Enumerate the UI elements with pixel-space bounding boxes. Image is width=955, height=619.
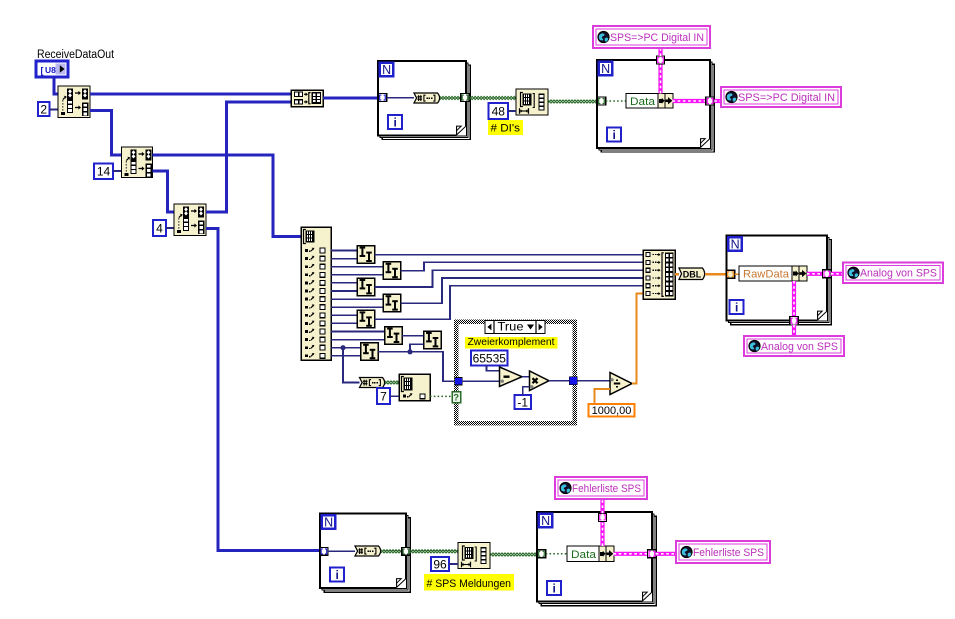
wire loop4 to reshape2 (boolean array) (410, 550, 458, 553)
join numbers node JN6 (385, 327, 403, 345)
wire right tunnel to Analog von SPS (831, 272, 843, 276)
case input tunnel (455, 378, 462, 385)
number-to-boolean-array node 1 (414, 93, 440, 103)
svg-text:N: N (541, 514, 550, 528)
For-loop1 right tunnel (461, 94, 470, 102)
wire right tunnel to SPS=>PC Digital IN (714, 99, 721, 103)
junction dot on JN7 output (407, 349, 412, 354)
number-to-boolean-array node 3 (360, 378, 385, 388)
wire constant4 to split3 (166, 227, 174, 229)
wire top tunnel to Fehlerliste SPS (600, 499, 604, 513)
wire index row 12 to join-numbers 6 (331, 339, 385, 341)
join numbers node JN7 (361, 343, 379, 361)
number-to-boolean-array node 4 (355, 546, 381, 556)
svg-text:# SPS Meldungen: # SPS Meldungen (427, 578, 512, 590)
label # SPS Meldungen (424, 574, 514, 591)
wire split2 out2 to split3 (153, 171, 175, 212)
case selector label True (485, 321, 545, 334)
svg-text:i: i (336, 568, 339, 582)
wire tunnel to num2boolarray 4 (328, 550, 355, 552)
svg-text:i: i (613, 128, 616, 142)
svg-text:SPS=>PC Digital IN: SPS=>PC Digital IN (738, 92, 835, 104)
shared variable SPS=>PC Digital IN (top) (593, 26, 710, 48)
wire split3 out2 to For-loop4 (206, 229, 320, 551)
wire split2 out1 to index array (153, 155, 302, 237)
svg-text:Fehlerliste SPS: Fehlerliste SPS (693, 547, 764, 559)
For-loop 1 frame (378, 61, 470, 140)
svg-text:Analog von SPS: Analog von SPS (860, 268, 937, 280)
wire JN5 to build array row5 (375, 286, 644, 320)
wire index row 3 to join-numbers 2 (331, 266, 383, 268)
wire index row 5 to join-numbers 3 (331, 282, 357, 284)
wire bottom tunnel to Analog von SPS (792, 325, 796, 336)
wire JN3 to build array row3 (375, 270, 644, 287)
wire right tunnel to Fehlerliste SPS (656, 552, 676, 556)
svg-text:# DI's: # DI's (491, 123, 521, 135)
constant 96 (431, 557, 449, 571)
wire tunnel to num2boolarray (387, 97, 414, 99)
wire constant14 to split2 (113, 170, 122, 172)
wire case input tunnel to subtract (462, 380, 500, 382)
constant 2 (38, 102, 50, 116)
wire split3 out1 to build array (206, 102, 291, 212)
wire Data2 up to top tunnel (psp) (600, 521, 604, 546)
svg-text:7: 7 (380, 389, 387, 403)
wire tunnel to Data (boolean) (546, 553, 567, 555)
For-loop2 right tunnel (706, 97, 715, 105)
wire build array to DBL (675, 273, 679, 276)
wire reshape2 to For-loop5 (boolean array) (490, 553, 537, 556)
svg-text:N: N (324, 516, 333, 530)
svg-text:14: 14 (97, 165, 111, 179)
wire DBL to For-loop3 (705, 273, 727, 276)
wire 65535 to subtract (487, 366, 500, 371)
svg-text:[: [ (41, 66, 44, 76)
wire small index array to case selector (boolean) (430, 395, 452, 397)
wire index row 9 to join-numbers 5 (331, 314, 357, 316)
svg-text:48: 48 (492, 104, 506, 118)
join numbers node JN3 (357, 278, 375, 296)
multiply node (530, 371, 550, 391)
wire index row 1 to join-numbers 1 (331, 250, 357, 252)
junction dot on index row 13 (340, 345, 345, 350)
wire build array to For-loop1 (323, 97, 378, 100)
case selector tunnel ? (452, 392, 461, 404)
wire junction to JN8 lower input (410, 344, 424, 351)
wire JN1 to build array row1 (375, 254, 644, 256)
wire index row 6 to join-numbers 3 (331, 290, 357, 292)
shared variable Analog von SPS (bottom) (744, 336, 844, 356)
label ReceiveDataOut (37, 49, 115, 61)
wire 96 to reshape2 (449, 563, 458, 565)
shared variable Analog von SPS (right) (843, 263, 943, 284)
For-loop 3 frame (727, 236, 832, 325)
For-loop3 left tunnel (726, 270, 735, 278)
wire JN2 to build array row2 (401, 262, 644, 270)
For-loop 4 frame (320, 514, 410, 593)
wire tunnel to Data node (boolean) (606, 100, 626, 102)
shared variable Fehlerliste SPS (top) (555, 477, 647, 499)
svg-text:Data: Data (571, 549, 597, 561)
wire n2b to right tunnel (boolean array) (440, 96, 461, 99)
wire top tunnel to shared variable (658, 48, 662, 57)
svg-text:i: i (394, 115, 397, 129)
wire index row 14 to join-numbers 7 (331, 355, 361, 357)
shared variable write node RawData (739, 266, 807, 281)
wire RawData down to bottom tunnel (psp) (792, 281, 796, 316)
shared variable write node Data 2 (567, 546, 614, 562)
svg-text:N: N (382, 63, 391, 77)
constant 4 (153, 220, 166, 236)
wire U8 terminal to split1 (54, 77, 58, 94)
to-double-precision DBL node (679, 268, 705, 280)
wire constant2 to split1 (50, 109, 59, 111)
join numbers node JN8 (424, 331, 442, 349)
wire index row 10 to join-numbers 5 (331, 322, 357, 324)
svg-text:N: N (731, 238, 740, 252)
wire Data to right tunnel (psp) (673, 99, 707, 103)
wire row13 junction down to num2boolarray 3 (343, 348, 360, 383)
constant 14 (94, 164, 113, 180)
svg-text:Analog von SPS: Analog von SPS (761, 341, 838, 353)
join numbers node JN2 (383, 262, 401, 280)
wire Data node up to top tunnel (psp) (658, 64, 662, 94)
svg-text:65535: 65535 (473, 351, 507, 365)
wire reshape1 to For-loop2 (boolean array) (548, 100, 597, 103)
For-loop4 left tunnel (320, 548, 328, 556)
wire 48 to reshape1 (508, 110, 516, 112)
wire index row 8 to join-numbers 4 (331, 306, 383, 308)
reshape array node 2 (458, 543, 490, 569)
build array node (7 inputs) (643, 250, 675, 299)
wire RawData to right tunnel (psp) (807, 272, 823, 276)
constant 48 (489, 103, 509, 119)
join numbers node JN1 (357, 246, 375, 264)
constant 1000,00 (589, 404, 635, 417)
For-loop5 right tunnel (648, 550, 657, 558)
svg-text:DBL: DBL (683, 270, 702, 280)
For-loop 2 frame (597, 60, 714, 152)
index array node (14 outputs) (301, 227, 331, 360)
wire case output to divide (577, 380, 610, 382)
wire n2b3 to index array small (boolean array) (385, 381, 399, 384)
wire multiply to output tunnel (549, 380, 569, 382)
For-loop5 top tunnel (598, 513, 606, 521)
wire JN4 to build array row4 (401, 278, 644, 303)
join numbers node JN5 (357, 310, 375, 328)
svg-text:Fehlerliste SPS: Fehlerliste SPS (572, 483, 641, 495)
wire index row 11 to join-numbers 6 (331, 331, 385, 333)
split array node 2 (122, 147, 153, 178)
constant -1 (515, 395, 532, 409)
svg-text:Data: Data (630, 96, 656, 108)
svg-text:True: True (498, 322, 524, 334)
wire loop1 to reshape1 (boolean array) (469, 96, 516, 99)
wire split1 out1 to build array (90, 93, 291, 96)
join numbers node JN4 (383, 294, 401, 312)
wire Data2 to right tunnel (psp) (614, 552, 648, 556)
For-loop1 left tunnel (378, 94, 387, 102)
reshape array node 1 (516, 89, 548, 115)
wire -1 to multiply (523, 387, 530, 395)
For-loop2 left tunnel (597, 97, 606, 105)
svg-text:U8: U8 (45, 65, 56, 75)
split array node 3 (174, 204, 206, 236)
label # DI's (488, 120, 523, 135)
case output tunnel (569, 377, 577, 385)
wire tunnel to RawData (735, 273, 739, 275)
wire split1 out2 to split2 (90, 111, 122, 156)
shared variable write node Data (626, 94, 673, 109)
constant 7 (377, 388, 390, 404)
svg-text:?: ? (453, 393, 459, 404)
wire index row 13 to join-numbers 7 (331, 347, 361, 349)
wire n2b4 to right tunnel (boolean array) (381, 550, 402, 553)
index array node (small) (399, 374, 430, 401)
wire JN7 output to case structure (378, 352, 455, 382)
svg-text:96: 96 (433, 557, 447, 571)
svg-text:-1: -1 (517, 395, 528, 409)
wire 1000,00 to divide (594, 389, 610, 404)
divide node (610, 373, 632, 395)
array terminal ReceiveDataOut [U8] (36, 61, 68, 77)
shared variable SPS=>PC Digital IN (right) (721, 87, 841, 107)
svg-text:2: 2 (40, 102, 47, 116)
build array node (2 inputs) (291, 90, 323, 107)
wire 7 to small index array (390, 395, 399, 397)
case structure border (454, 320, 577, 426)
For-loop3 bottom tunnel (790, 316, 799, 325)
svg-text:ReceiveDataOut: ReceiveDataOut (37, 49, 115, 61)
svg-text:i: i (735, 300, 738, 314)
For-loop4 right tunnel (402, 548, 410, 556)
wire index row 7 to join-numbers 4 (331, 298, 383, 300)
For-loop 5 frame (537, 512, 656, 606)
wire index row 2 to join-numbers 1 (331, 258, 357, 260)
wire divide to build array (DBL) (632, 294, 643, 384)
wire index row 4 to join-numbers 2 (331, 274, 383, 276)
For-loop3 right tunnel (823, 270, 832, 278)
shared variable Fehlerliste SPS (right) (676, 541, 770, 563)
subtract node (500, 367, 523, 387)
label Zweierkomplement (465, 336, 558, 349)
split array node 1 (58, 86, 90, 118)
constant 65535 (471, 351, 508, 366)
svg-text:SPS=>PC Digital IN: SPS=>PC Digital IN (610, 32, 704, 44)
svg-text:1000,00: 1000,00 (592, 405, 632, 417)
For-loop5 left tunnel (537, 550, 546, 558)
svg-text:Zweierkomplement: Zweierkomplement (468, 336, 555, 348)
wire JN6 to JN8 upper input (402, 335, 424, 337)
For-loop2 top tunnel (657, 56, 665, 64)
svg-text:i: i (553, 581, 556, 595)
wire subtract to multiply (522, 376, 530, 378)
svg-text:N: N (601, 62, 610, 76)
svg-text:RawData: RawData (743, 269, 790, 281)
svg-text:4: 4 (156, 221, 163, 235)
